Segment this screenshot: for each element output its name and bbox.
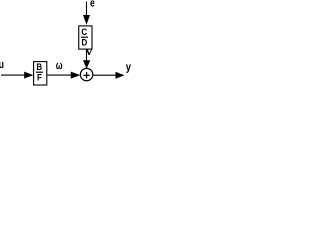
svg-text:C: C bbox=[81, 26, 87, 37]
svg-text:D: D bbox=[82, 37, 88, 48]
svg-text:B: B bbox=[36, 61, 42, 72]
svg-text:F: F bbox=[37, 72, 42, 83]
svg-text:e: e bbox=[90, 0, 95, 10]
svg-text:ω: ω bbox=[56, 60, 63, 72]
svg-text:y: y bbox=[126, 62, 132, 74]
svg-text:u: u bbox=[0, 59, 4, 71]
